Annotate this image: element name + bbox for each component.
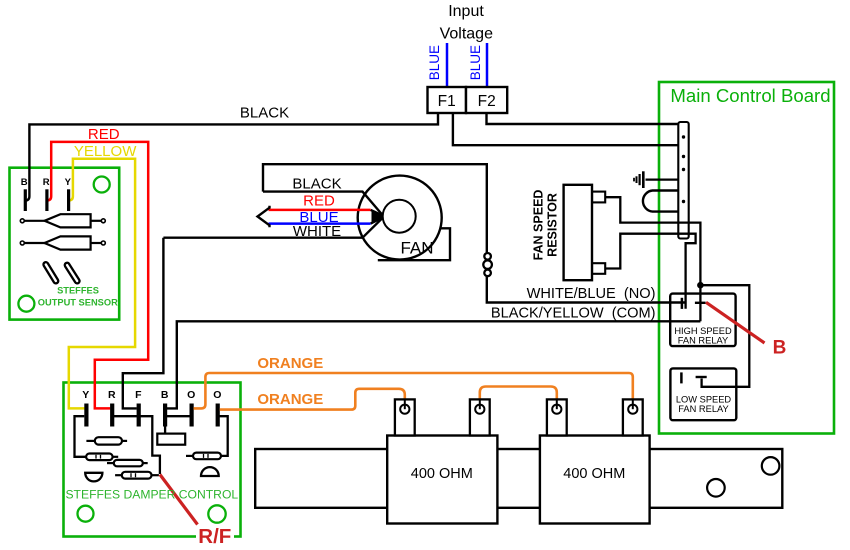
svg-text:RED: RED xyxy=(88,126,120,143)
svg-text:B: B xyxy=(773,338,787,359)
svg-text:FAN RELAY: FAN RELAY xyxy=(678,335,728,345)
svg-text:FAN SPEED: FAN SPEED xyxy=(532,190,546,261)
svg-text:Input: Input xyxy=(448,3,484,20)
svg-text:F1: F1 xyxy=(438,93,456,110)
svg-text:OUTPUT SENSOR: OUTPUT SENSOR xyxy=(38,297,118,307)
svg-text:R/F: R/F xyxy=(198,525,231,548)
svg-text:STEFFES DAMPER CONTROL: STEFFES DAMPER CONTROL xyxy=(65,488,238,502)
svg-text:F2: F2 xyxy=(478,93,496,110)
svg-text:FAN RELAY: FAN RELAY xyxy=(678,404,728,414)
svg-text:400 OHM: 400 OHM xyxy=(411,466,473,482)
svg-text:WHITE/BLUE (NO): WHITE/BLUE (NO) xyxy=(527,286,656,302)
svg-text:RED: RED xyxy=(303,193,335,210)
svg-text:O: O xyxy=(213,389,221,401)
svg-text:BLUE: BLUE xyxy=(468,45,483,80)
svg-text:ORANGE: ORANGE xyxy=(257,355,323,372)
svg-text:Voltage: Voltage xyxy=(440,25,493,42)
svg-text:R: R xyxy=(43,177,50,188)
svg-text:Main Control Board: Main Control Board xyxy=(670,85,830,106)
svg-text:BLACK/YELLOW (COM): BLACK/YELLOW (COM) xyxy=(491,305,656,321)
svg-text:R: R xyxy=(108,389,116,401)
svg-text:FAN: FAN xyxy=(400,239,433,258)
svg-text:BLUE: BLUE xyxy=(427,45,442,80)
svg-text:400 OHM: 400 OHM xyxy=(563,466,625,482)
svg-text:Y: Y xyxy=(82,389,89,401)
svg-text:ORANGE: ORANGE xyxy=(257,391,323,408)
svg-text:STEFFES: STEFFES xyxy=(57,285,99,295)
svg-text:YELLOW: YELLOW xyxy=(74,143,137,160)
svg-text:BLACK: BLACK xyxy=(292,176,341,193)
svg-text:B: B xyxy=(21,177,28,188)
svg-text:F: F xyxy=(135,389,142,401)
svg-text:BLACK: BLACK xyxy=(240,105,289,122)
svg-text:B: B xyxy=(161,389,169,401)
svg-text:RESISTOR: RESISTOR xyxy=(546,193,560,257)
svg-text:O: O xyxy=(187,389,195,401)
svg-text:Y: Y xyxy=(65,177,72,188)
svg-text:WHITE: WHITE xyxy=(293,223,341,240)
